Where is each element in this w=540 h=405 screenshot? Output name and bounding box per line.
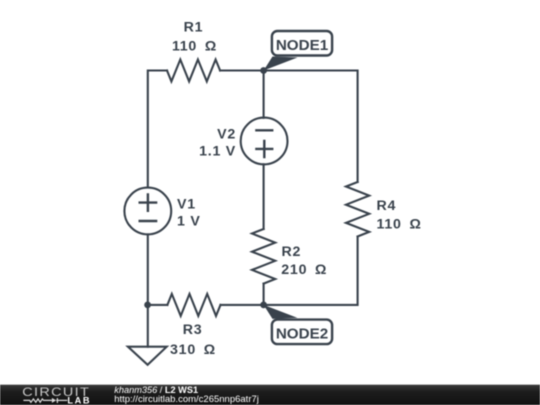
wire R3 to node2: [221, 304, 264, 306]
svg-text:1.1 V: 1.1 V: [199, 144, 236, 160]
svg-text:V1: V1: [177, 197, 196, 213]
svg-text:1 V: 1 V: [177, 214, 201, 230]
ground symbol: [128, 347, 167, 365]
logo diode triangle: [52, 398, 56, 403]
svg-text:NODE1: NODE1: [276, 37, 329, 54]
V1 minus sign: [140, 220, 156, 222]
wire V2 to R2: [263, 164, 265, 229]
svg-text:NODE2: NODE2: [276, 326, 328, 343]
NODE1 callout box: [272, 31, 332, 56]
wire R1 to node1: [220, 69, 264, 71]
wire node1 to top-right corner: [264, 71, 358, 183]
V2 plus sign: [256, 141, 272, 157]
wire V1 to bottom-left junction: [147, 234, 149, 305]
CircuitLab logo resistor-diode doodle: [23, 398, 67, 403]
NODE2 callout box: [272, 320, 332, 345]
V2 minus sign: [256, 129, 272, 131]
wire node1 down to V2: [263, 71, 265, 118]
wire R4 to bottom-right corner to node2: [264, 237, 358, 305]
voltage source V2 circle: [241, 118, 288, 165]
svg-text:http://circuitlab.com/c265nnp6: http://circuitlab.com/c265nnp6atr7j: [114, 394, 259, 405]
voltage source V1 circle: [124, 188, 171, 235]
resistor R2: [252, 229, 275, 284]
svg-text:R4: R4: [377, 198, 397, 214]
resistor R3: [167, 294, 220, 316]
wire R2 to node2: [263, 284, 265, 305]
svg-text:LAB: LAB: [67, 396, 91, 405]
NODE2 callout pointer: [264, 305, 298, 319]
svg-text:210 Ω: 210 Ω: [281, 262, 327, 278]
svg-text:R3: R3: [183, 322, 203, 338]
svg-text:R1: R1: [184, 19, 204, 35]
svg-text:R2: R2: [282, 244, 302, 260]
svg-text:310 Ω: 310 Ω: [170, 342, 216, 358]
V1 plus sign: [140, 194, 156, 210]
node1 junction dot: [260, 67, 267, 74]
svg-text:110 Ω: 110 Ω: [377, 217, 422, 233]
wire top-left corner to R1: [148, 71, 167, 187]
wire junction to R3: [148, 304, 168, 306]
resistor R4: [346, 182, 369, 237]
NODE1 callout pointer: [264, 57, 298, 71]
junction dot at V1/R3/ground: [144, 302, 151, 309]
wire junction to ground: [147, 305, 149, 347]
resistor R1: [167, 60, 220, 82]
svg-text:V2: V2: [217, 127, 236, 143]
node2 junction dot: [260, 302, 267, 309]
svg-text:110 Ω: 110 Ω: [172, 39, 217, 55]
